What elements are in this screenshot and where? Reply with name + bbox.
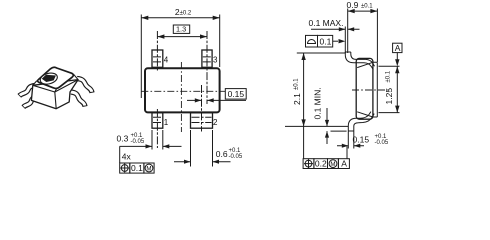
svg-text:A: A [341,159,347,169]
feature control frame profile 0.1 [306,35,346,47]
svg-text:3: 3 [213,56,218,65]
svg-text:0.6: 0.6 [216,149,228,159]
3d package body lower slab [31,80,78,109]
FCF leader arrow [333,40,338,42]
svg-text:2: 2 [213,118,218,127]
pin 4 center mark [153,31,162,71]
svg-text:0.3: 0.3 [117,134,129,144]
3d package marking dimple ellipse [39,71,58,86]
dimension 0.6 arrows [174,161,231,163]
3d package body upper slab sides [33,74,78,92]
svg-text:A: A [395,43,401,53]
feature control frame position 0.2 M A [303,147,349,169]
horizontal centerline (top view) [141,90,225,92]
dimension 1.3 line with arrows [157,36,207,38]
bottom lead extension lines for 0.15 [348,131,354,149]
datum A leader arrow [396,53,398,60]
dimension 0.1 MIN arrows [327,108,347,144]
svg-text:M: M [330,161,335,168]
svg-text:-0.05: -0.05 [229,154,243,160]
svg-text:M: M [146,165,151,172]
side view body outline [356,58,373,119]
side view horizontal centerline [352,89,390,91]
3d package body ledge (parting line) [33,80,78,92]
pin 4 (top-left) [152,50,163,67]
dimension 0.15 pin offset arrows [187,99,246,101]
dimension 0.15 box (top view) [225,89,246,100]
dimension 0.3 extension lines [152,130,163,150]
svg-text:0.1 MAX.: 0.1 MAX. [309,18,344,28]
FCF leader line [346,147,348,159]
pin 2 (bottom-right, wide) [191,113,213,128]
svg-text:+0.1: +0.1 [131,133,144,139]
svg-text:+0.1: +0.1 [229,148,242,154]
svg-text:+0.1: +0.1 [375,134,388,140]
svg-text:-0.05: -0.05 [375,140,389,146]
side view body top-face line [373,62,377,117]
svg-text:±0.1: ±0.1 [361,4,373,10]
side view body draft taper lines [357,62,373,117]
pin 2 center mark [192,85,212,132]
svg-text:2.1: 2.1 [292,93,302,105]
datum A box [393,43,402,52]
bottom lead foot end cap [348,130,354,132]
svg-text:4x: 4x [122,151,132,161]
dimension 2.1 line with arrows [303,53,305,159]
package body (top view) [145,68,220,112]
dimension 2.1 extension lines [285,53,348,126]
3d package lead right-rear gull wing [77,79,92,93]
vertical centerline (top view) [180,62,182,132]
svg-text:0.1: 0.1 [320,36,332,46]
dimension 0.15 arrows (lead thickness) [337,145,364,147]
3d package lead left-rear gull wing [19,86,34,96]
svg-text:±0.1: ±0.1 [294,78,300,90]
dimension 2±0.2 extension lines [141,15,219,99]
svg-text:0.1 MIN.: 0.1 MIN. [313,87,323,119]
dimension 0.6 extension lines [191,130,213,167]
dimension 1.3 box [173,25,189,33]
svg-text:0.15: 0.15 [228,89,245,99]
svg-text:-0.05: -0.05 [131,139,145,145]
3d package body front edge [55,92,56,109]
pin 1 (bottom-left) [152,113,163,128]
feature control frame 4x position 0.1 M [120,146,154,173]
svg-text:±0.1: ±0.1 [386,70,392,82]
svg-text:0.1: 0.1 [131,163,143,173]
svg-text:1.25: 1.25 [384,88,394,105]
pin 3 (top-right) [202,50,212,67]
3d package lead right-front gull wing [71,92,85,107]
dimension 1.25 line with arrows [396,66,398,112]
dimension 1.25 extension lines [379,66,400,112]
dimension 0.1 MAX extension line [344,27,346,54]
3d package top face [37,67,73,88]
pin 1 center mark [153,109,162,148]
svg-text:0.9: 0.9 [347,0,359,10]
bottom lead gull wing [348,112,371,131]
svg-text:4: 4 [164,56,169,65]
pin 3 center mark [203,31,211,104]
svg-text:0.15: 0.15 [353,134,370,144]
svg-text:0.2: 0.2 [315,159,327,169]
top lead foot end cap [345,51,351,53]
dimension 0.9 extension lines [348,9,378,63]
3d package lead left-front gull wing [23,97,37,108]
svg-text:±0.2: ±0.2 [180,11,192,17]
dimension 0.3 arrows [120,145,182,147]
dimension 2±0.2 line with arrows [141,17,219,19]
3d package dark chip wedge [42,75,56,82]
dimension 0.1 MAX arrows [311,28,360,30]
top lead gull wing [345,52,373,70]
svg-text:1.3: 1.3 [176,25,186,34]
svg-text:1: 1 [164,118,169,127]
dimension 0.9 line with arrows [348,10,378,12]
